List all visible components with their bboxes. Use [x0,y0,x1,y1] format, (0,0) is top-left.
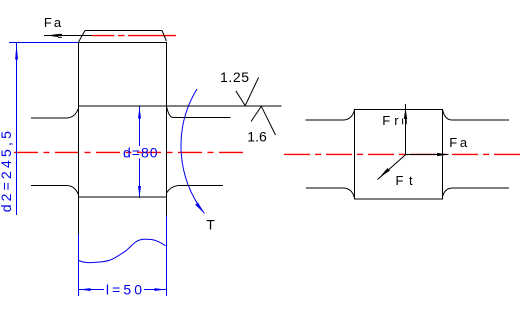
svg-text:Fr: Fr [382,113,402,128]
svg-text:1.6: 1.6 [247,128,267,144]
svg-text:Fa: Fa [449,135,469,150]
svg-text:1.25: 1.25 [220,69,250,85]
svg-text:d2=245,5: d2=245,5 [0,128,14,212]
svg-text:l=50: l=50 [106,281,145,297]
svg-text:Fa: Fa [44,15,63,30]
svg-text:d=80: d=80 [123,145,159,161]
svg-text:Ft: Ft [396,173,419,188]
svg-text:T: T [206,217,215,233]
